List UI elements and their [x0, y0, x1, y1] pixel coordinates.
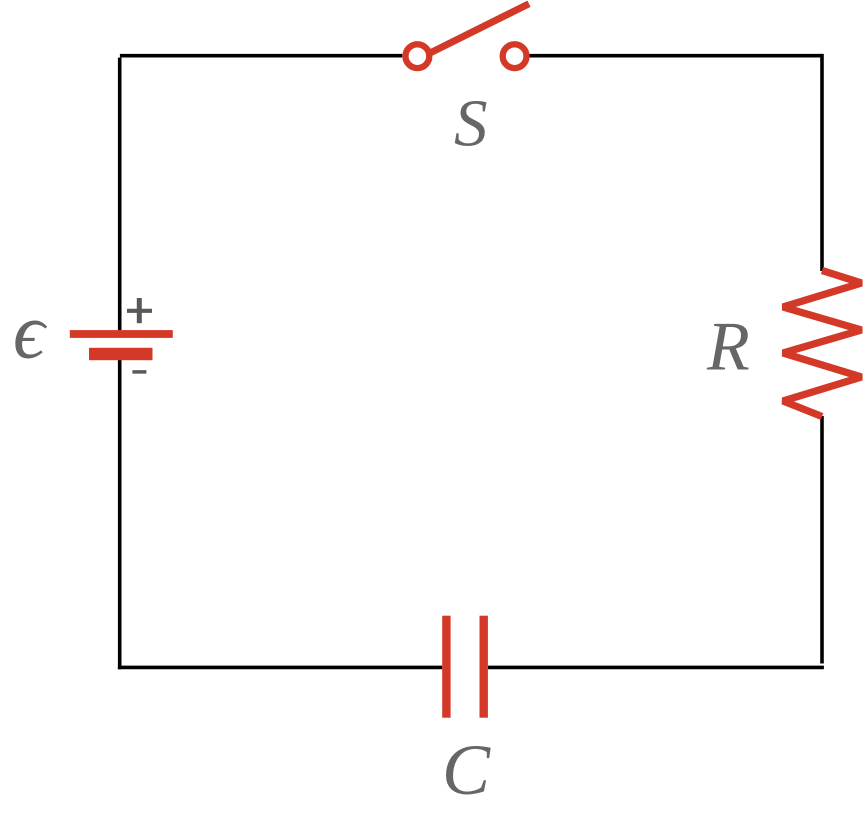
- svg-text:ϵ: ϵ: [13, 287, 48, 374]
- svg-text:S: S: [454, 87, 488, 161]
- svg-text:C: C: [442, 730, 491, 810]
- svg-text:R: R: [706, 308, 750, 385]
